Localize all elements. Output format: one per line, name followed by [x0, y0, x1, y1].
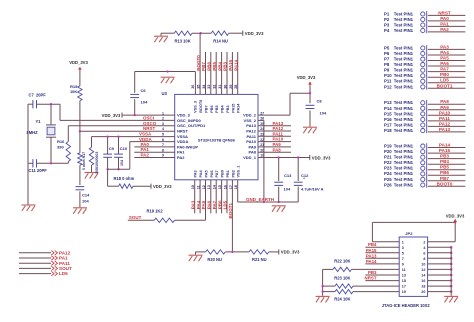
svg-text:PB3: PB3 [368, 270, 377, 275]
svg-text:NRST: NRST [365, 276, 377, 281]
svg-text:P24: P24 [384, 171, 392, 176]
svg-text:PA4: PA4 [440, 50, 449, 55]
svg-text:PA8: PA8 [249, 150, 257, 155]
svg-text:Test PIN1: Test PIN1 [394, 171, 414, 176]
svg-text:VSS_3: VSS_3 [194, 101, 198, 113]
svg-text:VSSA: VSSA [139, 132, 152, 137]
svg-text:VDD_3: VDD_3 [177, 113, 191, 118]
svg-text:R23 10K: R23 10K [334, 276, 350, 281]
svg-text:NRST: NRST [143, 126, 156, 131]
svg-text:Test PIN1: Test PIN1 [394, 160, 414, 165]
svg-text:PB6: PB6 [210, 105, 214, 112]
svg-text:SOUT: SOUT [129, 215, 142, 220]
svg-text:PA6: PA6 [207, 200, 212, 209]
svg-text:4: 4 [162, 127, 164, 131]
svg-text:P26: P26 [384, 182, 392, 187]
svg-text:BOOT0: BOOT0 [437, 181, 453, 186]
svg-text:PA5: PA5 [440, 56, 449, 61]
svg-text:R20 NU: R20 NU [207, 257, 222, 262]
svg-text:Test PIN1: Test PIN1 [394, 45, 414, 50]
svg-text:PA8: PA8 [273, 147, 282, 152]
svg-text:VDD_3V3: VDD_3V3 [312, 155, 331, 160]
svg-text:PA10: PA10 [246, 139, 256, 144]
svg-text:PB1: PB1 [226, 170, 230, 177]
svg-text:JTAG-ICE HEADER 10X2: JTAG-ICE HEADER 10X2 [382, 303, 431, 308]
svg-text:PB3: PB3 [226, 105, 230, 112]
svg-text:Test PIN1: Test PIN1 [394, 17, 414, 22]
svg-text:LD5: LD5 [59, 271, 68, 276]
svg-text:P17: P17 [384, 122, 392, 127]
svg-text:P12: P12 [384, 84, 392, 89]
svg-text:36: 36 [191, 85, 195, 89]
svg-text:15: 15 [402, 279, 406, 283]
svg-text:Test PIN1: Test PIN1 [394, 51, 414, 56]
svg-text:PA1: PA1 [440, 21, 449, 26]
svg-text:VDD_1: VDD_1 [243, 155, 257, 160]
svg-text:Test PIN1: Test PIN1 [394, 144, 414, 149]
svg-text:PB4: PB4 [440, 159, 449, 164]
svg-text:R19 1K2: R19 1K2 [147, 209, 164, 214]
svg-text:P7: P7 [384, 57, 390, 62]
svg-text:R14 NU: R14 NU [213, 39, 228, 44]
svg-text:10K: 10K [70, 89, 77, 94]
svg-text:5: 5 [402, 251, 404, 255]
svg-text:OSCO: OSCO [143, 121, 157, 126]
svg-text:VDD_3V3: VDD_3V3 [281, 250, 300, 255]
svg-text:12: 12 [421, 268, 425, 272]
svg-text:Test PIN1: Test PIN1 [394, 11, 414, 16]
svg-text:C9: C9 [109, 146, 115, 151]
svg-text:P10: P10 [384, 73, 392, 78]
svg-text:VDD_2: VDD_2 [243, 113, 257, 118]
svg-text:PA14: PA14 [439, 143, 451, 148]
svg-text:104: 104 [120, 160, 124, 166]
svg-text:P20: P20 [384, 149, 392, 154]
svg-text:P25: P25 [384, 177, 392, 182]
svg-text:P14: P14 [384, 106, 392, 111]
svg-text:Test PIN1: Test PIN1 [394, 177, 414, 182]
svg-text:Test PIN1: Test PIN1 [394, 111, 414, 116]
svg-text:PB7: PB7 [201, 62, 206, 71]
svg-text:PA1: PA1 [177, 150, 185, 155]
svg-text:JP2: JP2 [405, 231, 413, 236]
svg-text:PA8: PA8 [440, 99, 449, 104]
svg-text:104: 104 [82, 199, 89, 204]
svg-text:PA12: PA12 [246, 129, 256, 134]
svg-text:Test PIN1: Test PIN1 [394, 28, 414, 33]
svg-text:PA3: PA3 [440, 44, 449, 49]
svg-text:PA14: PA14 [233, 59, 238, 70]
svg-text:Test PIN1: Test PIN1 [394, 149, 414, 154]
svg-text:Test PIN1: Test PIN1 [394, 128, 414, 133]
svg-text:P5: P5 [384, 45, 390, 50]
svg-text:PA13: PA13 [366, 253, 377, 258]
svg-text:VSSA: VSSA [177, 134, 188, 139]
svg-text:NRST: NRST [438, 10, 451, 15]
svg-text:PA9: PA9 [273, 142, 282, 147]
svg-text:P11: P11 [384, 79, 392, 84]
svg-text:VDD_3V3: VDD_3V3 [102, 113, 121, 118]
svg-text:PA15: PA15 [439, 148, 451, 153]
svg-text:Test PIN1: Test PIN1 [394, 62, 414, 67]
svg-text:VDDA: VDDA [177, 139, 188, 144]
svg-text:13: 13 [402, 274, 406, 278]
svg-text:R24 10K: R24 10K [334, 297, 350, 302]
svg-text:PA2: PA2 [141, 153, 150, 158]
svg-text:P3: P3 [384, 22, 390, 27]
svg-text:P1: P1 [384, 11, 390, 16]
svg-text:PB5: PB5 [440, 165, 449, 170]
svg-text:Test PIN1: Test PIN1 [394, 166, 414, 171]
svg-text:19: 19 [402, 290, 406, 294]
svg-text:PA15: PA15 [366, 248, 377, 253]
svg-text:C10: C10 [120, 146, 128, 151]
svg-text:6: 6 [423, 251, 425, 255]
svg-text:BOOT0: BOOT0 [196, 55, 201, 71]
svg-text:P19: P19 [384, 144, 392, 149]
svg-text:PA9: PA9 [440, 105, 449, 110]
svg-text:R13 10K: R13 10K [175, 39, 191, 44]
svg-text:PB4: PB4 [217, 62, 222, 71]
svg-text:GND_EARTH: GND_EARTH [246, 197, 274, 202]
svg-text:P4: P4 [384, 28, 390, 33]
svg-text:Test PIN1: Test PIN1 [394, 106, 414, 111]
svg-text:Test PIN1: Test PIN1 [394, 73, 414, 78]
svg-text:11: 11 [402, 268, 406, 272]
svg-text:P21: P21 [384, 155, 392, 160]
svg-text:PA11: PA11 [273, 131, 284, 136]
svg-text:PB6: PB6 [440, 170, 449, 175]
svg-text:VDD_3V3: VDD_3V3 [446, 213, 465, 218]
svg-text:9: 9 [402, 263, 404, 267]
svg-text:VSS_1: VSS_1 [237, 166, 241, 178]
svg-text:2: 2 [423, 240, 425, 244]
svg-text:8: 8 [423, 257, 425, 261]
svg-text:PB0: PB0 [217, 200, 222, 209]
svg-text:Test PIN1: Test PIN1 [394, 22, 414, 27]
svg-text:PA13: PA13 [439, 127, 451, 132]
svg-text:Test PIN1: Test PIN1 [394, 117, 414, 122]
svg-text:104: 104 [284, 187, 291, 192]
svg-text:P23: P23 [384, 166, 392, 171]
svg-text:Y1: Y1 [36, 119, 42, 124]
svg-text:P6: P6 [384, 51, 390, 56]
svg-text:Test PIN1: Test PIN1 [394, 100, 414, 105]
svg-text:C12: C12 [301, 173, 309, 178]
svg-text:PA15: PA15 [228, 59, 233, 70]
svg-text:3: 3 [402, 246, 404, 250]
svg-text:17: 17 [402, 285, 406, 289]
svg-text:PA7: PA7 [440, 67, 449, 72]
svg-text:P16: P16 [384, 117, 392, 122]
svg-text:PA1: PA1 [141, 147, 150, 152]
svg-text:PA10: PA10 [273, 137, 284, 142]
svg-text:PB0: PB0 [221, 170, 225, 177]
svg-text:C14: C14 [82, 193, 90, 198]
svg-text:PA4: PA4 [199, 170, 203, 178]
svg-text:PB7: PB7 [205, 105, 209, 112]
svg-text:PA5: PA5 [205, 170, 209, 177]
svg-text:PA12: PA12 [439, 121, 451, 126]
svg-text:C7 20PF: C7 20PF [29, 93, 47, 98]
svg-text:Test PIN1: Test PIN1 [394, 57, 414, 62]
svg-text:C11 20PF: C11 20PF [29, 168, 48, 173]
svg-text:PB6: PB6 [207, 62, 212, 71]
svg-text:VDD_3V3: VDD_3V3 [153, 184, 172, 189]
svg-text:R22 10K: R22 10K [334, 259, 350, 264]
svg-text:BOOT1: BOOT1 [437, 83, 453, 88]
svg-text:105/10V/0603: 105/10V/0603 [95, 152, 99, 174]
svg-text:PB5: PB5 [212, 62, 217, 71]
svg-text:PA13: PA13 [273, 121, 284, 126]
svg-text:P15: P15 [384, 111, 392, 116]
svg-text:Test PIN1: Test PIN1 [394, 68, 414, 73]
svg-text:PA15: PA15 [231, 104, 235, 113]
svg-text:PA0: PA0 [440, 16, 449, 21]
svg-text:P9: P9 [384, 68, 390, 73]
svg-text:P13: P13 [384, 100, 392, 105]
svg-text:7: 7 [402, 257, 404, 261]
svg-text:PA11: PA11 [247, 134, 257, 139]
svg-text:PA6: PA6 [210, 170, 214, 177]
svg-text:PA14: PA14 [237, 103, 241, 113]
svg-text:P22: P22 [384, 160, 392, 165]
svg-text:18: 18 [421, 285, 425, 289]
svg-text:R18 0 ohm: R18 0 ohm [114, 176, 135, 181]
svg-text:VSS_2: VSS_2 [244, 118, 257, 123]
svg-text:PA0: PA0 [141, 142, 150, 147]
svg-text:Test PIN1: Test PIN1 [394, 122, 414, 127]
svg-text:C8: C8 [317, 99, 323, 104]
svg-text:P8: P8 [384, 62, 390, 67]
svg-text:Test PIN1: Test PIN1 [394, 79, 414, 84]
svg-text:ST32F103TB QFN36: ST32F103TB QFN36 [198, 138, 236, 143]
svg-text:PA14: PA14 [366, 259, 377, 264]
svg-text:PA10: PA10 [439, 110, 451, 115]
svg-text:4.7uF/16V A: 4.7uF/16V A [301, 187, 324, 192]
svg-text:PB5: PB5 [215, 105, 219, 112]
svg-text:VDD_3V3: VDD_3V3 [297, 75, 316, 80]
svg-text:VDD_3V3: VDD_3V3 [245, 31, 264, 36]
svg-text:Test PIN1: Test PIN1 [394, 155, 414, 160]
svg-text:10: 10 [421, 263, 425, 267]
svg-text:PA3: PA3 [194, 170, 198, 177]
svg-text:1: 1 [402, 240, 404, 244]
svg-text:P18: P18 [384, 128, 392, 133]
svg-text:R16: R16 [57, 139, 65, 144]
svg-text:PA7: PA7 [215, 170, 219, 177]
svg-text:0 ohm R17: 0 ohm R17 [82, 152, 86, 170]
svg-text:PA4: PA4 [196, 200, 201, 209]
svg-text:C6: C6 [141, 88, 147, 93]
svg-text:P2: P2 [384, 17, 390, 22]
svg-text:Test PIN1: Test PIN1 [394, 84, 414, 89]
svg-text:PA3: PA3 [190, 200, 195, 209]
svg-text:PB3: PB3 [440, 154, 449, 159]
svg-text:PA6: PA6 [440, 61, 449, 66]
svg-text:OSC_OUT/PD1: OSC_OUT/PD1 [177, 123, 206, 128]
svg-text:BOOT1: BOOT1 [228, 203, 233, 219]
svg-text:NRST: NRST [177, 129, 188, 134]
svg-text:PA5: PA5 [201, 200, 206, 209]
svg-text:PB0: PB0 [440, 72, 449, 77]
svg-text:U3: U3 [162, 91, 168, 96]
svg-text:PB4: PB4 [221, 105, 225, 113]
svg-text:20: 20 [421, 290, 425, 294]
svg-text:VDD_3V3: VDD_3V3 [69, 60, 88, 65]
svg-text:BOOT0: BOOT0 [199, 100, 203, 113]
svg-text:LD5: LD5 [223, 200, 228, 209]
svg-text:PB4: PB4 [368, 242, 377, 247]
svg-text:PB3: PB3 [223, 62, 228, 71]
svg-text:PB7: PB7 [440, 176, 449, 181]
svg-text:104: 104 [141, 100, 148, 105]
svg-text:PA11: PA11 [439, 116, 450, 121]
svg-text:PA0-WKUP: PA0-WKUP [177, 144, 198, 149]
svg-text:C13: C13 [284, 173, 292, 178]
svg-text:PA12: PA12 [273, 126, 284, 131]
svg-text:104: 104 [320, 111, 327, 116]
svg-text:PA7: PA7 [212, 200, 217, 209]
svg-text:PB2: PB2 [231, 170, 235, 177]
svg-text:R21 NU: R21 NU [252, 257, 267, 262]
svg-text:OSCI: OSCI [143, 115, 154, 120]
svg-text:PA13: PA13 [246, 123, 256, 128]
svg-text:PA2: PA2 [177, 155, 185, 160]
svg-text:16: 16 [421, 279, 425, 283]
svg-text:PA9: PA9 [249, 144, 257, 149]
svg-text:Test PIN1: Test PIN1 [394, 182, 414, 187]
svg-text:OSC_IN/PD0: OSC_IN/PD0 [177, 118, 202, 123]
svg-text:LD5: LD5 [440, 78, 449, 83]
svg-text:PA2: PA2 [440, 27, 449, 32]
svg-text:390: 390 [57, 144, 64, 149]
svg-text:5: 5 [162, 133, 164, 137]
